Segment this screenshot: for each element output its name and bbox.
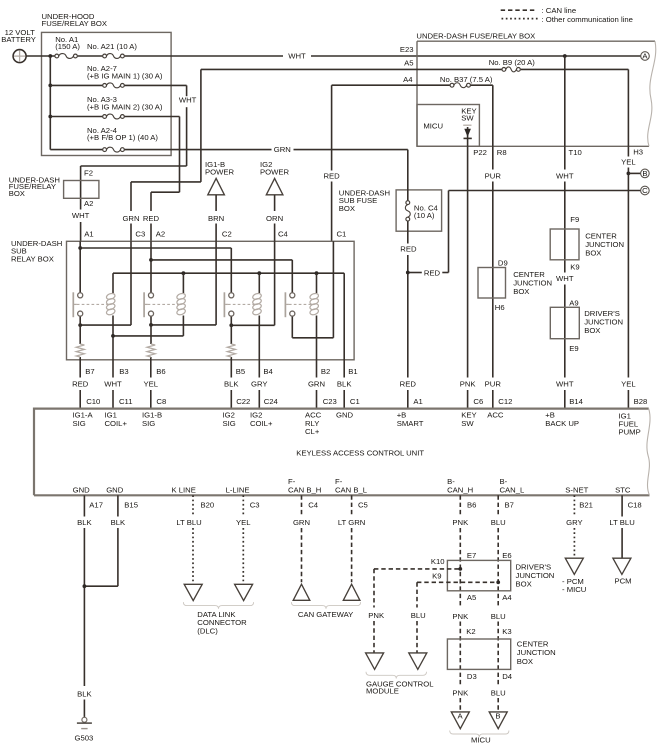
- svg-text:BRN: BRN: [208, 214, 224, 223]
- svg-text:RED: RED: [400, 245, 417, 254]
- svg-text:RELAY BOX: RELAY BOX: [11, 254, 54, 263]
- svg-text:D4: D4: [502, 672, 513, 681]
- svg-text:GRN: GRN: [274, 145, 291, 154]
- svg-text:WHT: WHT: [288, 51, 306, 60]
- svg-text:RED: RED: [400, 380, 417, 389]
- IG1-B POWER feed triangle: [205, 160, 234, 195]
- wire: C5 F-CAN B_L (dashed LT GRN): [351, 495, 353, 582]
- svg-text:K2: K2: [466, 627, 475, 636]
- junction: YEL to connector B: [627, 172, 631, 176]
- svg-text:B5: B5: [236, 367, 245, 376]
- svg-text:PUR: PUR: [485, 171, 502, 180]
- svg-text:(150 A): (150 A): [55, 42, 80, 51]
- wire: A2-7 output down-left to F2 (WHT): [81, 85, 187, 209]
- label - PCM - MICU: [562, 577, 586, 594]
- svg-text:COIL+: COIL+: [250, 419, 273, 428]
- svg-text:BLU: BLU: [491, 688, 506, 697]
- svg-text:C3: C3: [135, 230, 145, 239]
- svg-text:RED: RED: [323, 171, 340, 180]
- wire: pin A2 into relay 2 switch: [150, 241, 152, 292]
- junction: T10 tap on E23 row: [563, 54, 567, 58]
- connector circle B: [641, 169, 650, 178]
- wire: pin C2 to relay 2 switch output: [151, 241, 216, 325]
- svg-text:UNDER-DASH FUSE/RELAY BOX: UNDER-DASH FUSE/RELAY BOX: [416, 32, 535, 41]
- svg-text:C4: C4: [308, 500, 319, 509]
- svg-text:F2: F2: [84, 168, 93, 177]
- wire: B15 ground wire (BLK): [84, 495, 118, 586]
- relay R2 coil: [176, 292, 186, 315]
- svg-text:RED: RED: [72, 380, 89, 389]
- wire: coil 4 top drop: [316, 273, 318, 293]
- svg-text:C11: C11: [119, 397, 133, 406]
- svg-text:PNK: PNK: [452, 688, 469, 697]
- svg-text:C8: C8: [156, 397, 166, 406]
- svg-text:PUR: PUR: [485, 380, 502, 389]
- wire: IG2 power to pin C4 (ORN): [274, 195, 276, 242]
- junction: RED branch: [406, 271, 410, 275]
- junction: battery bus tap: [48, 54, 52, 58]
- wire: pin C3 to relay 1 switch output: [80, 241, 131, 325]
- connector circle A: [641, 52, 650, 61]
- svg-text:BLK: BLK: [224, 380, 239, 389]
- legend: other communication line sample (dotted): [502, 15, 633, 24]
- wire stubs into keyless unit top edge: [80, 390, 344, 409]
- svg-text:G503: G503: [75, 734, 94, 743]
- wire color labels relay box to keyless unit: [72, 380, 352, 389]
- relay R4 coil: [309, 292, 319, 315]
- under-dash sub fuse box outline: [339, 189, 442, 232]
- svg-text:CAN B_H: CAN B_H: [288, 486, 321, 495]
- wire: coil 3 bottom to B4: [258, 316, 260, 378]
- svg-text:GND: GND: [336, 410, 354, 419]
- svg-text:E23: E23: [400, 45, 414, 54]
- svg-text:SW: SW: [461, 419, 474, 428]
- svg-text:A: A: [642, 52, 648, 61]
- IG2 POWER feed triangle: [260, 160, 289, 195]
- svg-text:C24: C24: [264, 397, 279, 406]
- svg-text:SW: SW: [461, 114, 474, 123]
- svg-text:B4: B4: [263, 367, 273, 376]
- keyless bottom signal names: [73, 477, 631, 495]
- relay R4 switch contacts: [290, 293, 295, 316]
- svg-text:E9: E9: [569, 344, 578, 353]
- wire: C18 STC (LT BLU): [621, 495, 623, 558]
- driver's junction box A9/E9 on WHT wire: [550, 299, 623, 354]
- relay R2 switch contacts: [148, 293, 153, 316]
- svg-text:JUNCTION: JUNCTION: [517, 648, 556, 657]
- svg-text:K9: K9: [432, 572, 441, 581]
- STC triangle to PCM: [613, 558, 631, 574]
- svg-text:No. B37 (7.5 A): No. B37 (7.5 A): [440, 75, 493, 84]
- svg-text:A1: A1: [413, 397, 422, 406]
- junction: ground wires join: [83, 584, 87, 588]
- MICU triangle A: [451, 712, 469, 729]
- label fuse A2-4: [87, 126, 158, 142]
- wire: coil 2 top drop: [182, 273, 184, 293]
- svg-text:BLK: BLK: [111, 518, 126, 527]
- wire: pin C1 to relay 4 switch output: [292, 241, 333, 337]
- svg-text:S-NET: S-NET: [565, 486, 588, 495]
- wire: pin C4 to relay 3 switch output: [231, 241, 274, 325]
- svg-text:H3: H3: [633, 148, 643, 157]
- svg-text:E7: E7: [467, 551, 476, 560]
- CAN gateway bracket: [291, 602, 360, 609]
- MICU bracket: [450, 731, 509, 738]
- svg-text:MODULE: MODULE: [366, 687, 399, 696]
- svg-text:C6: C6: [473, 397, 483, 406]
- relay R2 mechanical link (dashed): [148, 303, 179, 305]
- gauge control module triangle 1: [366, 653, 384, 670]
- svg-text:K3: K3: [502, 627, 511, 636]
- svg-text:GRN: GRN: [308, 380, 325, 389]
- svg-text:BLU: BLU: [411, 611, 426, 620]
- svg-text:C23: C23: [323, 397, 337, 406]
- svg-text:PNK: PNK: [460, 380, 477, 389]
- center junction box K2/K3 D3/D4: [447, 627, 555, 681]
- svg-text:RED: RED: [424, 268, 441, 277]
- wire: A3-3 output to relay pin A2 (RED): [151, 117, 180, 242]
- relay R1 switch contacts: [78, 293, 83, 316]
- svg-text:GND: GND: [106, 486, 124, 495]
- svg-text:LT GRN: LT GRN: [338, 518, 365, 527]
- relay R2 armature: [144, 292, 148, 317]
- svg-text:CL+: CL+: [305, 427, 320, 436]
- svg-text:LT BLU: LT BLU: [176, 518, 201, 527]
- wire: R8 to C12 (PUR): [492, 146, 494, 408]
- relay R1 mechanical link (dashed): [77, 303, 108, 305]
- svg-text:BLU: BLU: [491, 518, 506, 527]
- wire: F2 box to relay pin A1 (WHT): [80, 222, 82, 241]
- svg-text:A1: A1: [84, 230, 93, 239]
- svg-text:C10: C10: [86, 397, 100, 406]
- svg-text:(DLC): (DLC): [197, 627, 218, 636]
- junction relay 2 output: [149, 323, 153, 327]
- svg-text:F9: F9: [570, 215, 579, 224]
- fuse No. A2-7 (+B IG MAIN 1) (30 A) row: [50, 83, 186, 88]
- svg-text:BOX: BOX: [517, 657, 533, 666]
- svg-text:PNK: PNK: [452, 612, 469, 621]
- relay R4 armature: [285, 292, 289, 317]
- driver's junction box E7/E6 A5/A4: [447, 551, 554, 602]
- svg-text:COIL+: COIL+: [105, 419, 128, 428]
- relay R3 switch contacts: [229, 293, 234, 316]
- gauge control module bracket: [366, 672, 427, 679]
- svg-text:POWER: POWER: [205, 168, 234, 177]
- svg-text:BLK: BLK: [77, 690, 92, 699]
- wire: P22 to C6 (PNK): [467, 146, 469, 408]
- svg-text:YEL: YEL: [621, 158, 636, 167]
- wire: A17 ground wire (BLK): [83, 495, 85, 717]
- svg-text:STC: STC: [615, 486, 631, 495]
- fuse No. A1 (150 A): [55, 54, 77, 59]
- wire: pin A1 into relay 1 switch: [79, 241, 81, 292]
- svg-text:PNK: PNK: [452, 518, 469, 527]
- under-dash fuse/relay box (F2/A2 segment): [9, 175, 99, 198]
- wire: C4 F-CAN B_H (dashed GRN): [301, 495, 303, 582]
- svg-text:KEYLESS ACCESS CONTROL UNIT: KEYLESS ACCESS CONTROL UNIT: [296, 449, 424, 458]
- svg-text:L-LINE: L-LINE: [226, 486, 250, 495]
- svg-text:SIG: SIG: [223, 419, 236, 428]
- wire: C3 L-LINE (dotted YEL): [242, 495, 244, 584]
- junction dots on battery bus: [48, 84, 52, 119]
- ground G503 symbol: [75, 717, 94, 742]
- junction K10 on B-CAN_H: [458, 567, 462, 571]
- svg-text:D3: D3: [467, 672, 477, 681]
- junction coil1 bottom: [111, 334, 115, 338]
- fuse No. C4 (10 A): [405, 201, 410, 221]
- svg-text:BOX: BOX: [9, 189, 25, 198]
- svg-text:B6: B6: [467, 500, 476, 509]
- wire: coil 3 top drop: [258, 273, 260, 293]
- svg-text:B3: B3: [119, 367, 128, 376]
- resistor under relay 1: [76, 344, 84, 357]
- under-dash sub relay box outline: [11, 239, 354, 360]
- relay R1 armature: [73, 292, 77, 317]
- wire: relay 1 switch lower contact: [79, 316, 81, 344]
- label fuse A1: [55, 35, 80, 51]
- wire: E23 tap down to T10 (WHT backup feed): [564, 56, 566, 146]
- fuse No. A2-4 (+B F/B OP 1) (40 A) row: [50, 147, 408, 152]
- wire: T10 to B14 (WHT): [564, 146, 566, 408]
- svg-text:B6: B6: [156, 367, 165, 376]
- svg-text:RED: RED: [143, 214, 160, 223]
- svg-text:POWER: POWER: [260, 168, 289, 177]
- svg-text:CAN GATEWAY: CAN GATEWAY: [298, 610, 353, 619]
- svg-text:SMART: SMART: [397, 419, 424, 428]
- svg-text:C12: C12: [498, 397, 512, 406]
- svg-text:A4: A4: [403, 75, 413, 84]
- svg-text:H6: H6: [495, 303, 505, 312]
- wire: resistor outputs to pins B7/B6/B5: [80, 357, 231, 378]
- svg-text:A17: A17: [89, 500, 103, 509]
- svg-text:D9: D9: [498, 258, 508, 267]
- svg-text:WHT: WHT: [556, 380, 574, 389]
- svg-text:C1: C1: [350, 397, 360, 406]
- relay pin labels top edge: [84, 230, 346, 239]
- svg-text:BACK UP: BACK UP: [545, 419, 579, 428]
- svg-text:E6: E6: [502, 551, 511, 560]
- svg-text:K LINE: K LINE: [172, 486, 196, 495]
- svg-text:YEL: YEL: [621, 380, 636, 389]
- svg-text:CENTER: CENTER: [517, 640, 549, 649]
- svg-text:MICU: MICU: [471, 736, 491, 745]
- svg-text:BATTERY: BATTERY: [1, 35, 36, 44]
- keyless bottom pin number labels: [89, 500, 641, 509]
- svg-text:PCM: PCM: [615, 576, 632, 585]
- svg-text:B21: B21: [579, 500, 593, 509]
- wire: A4 left branch down to relay pin C1 (RED): [331, 85, 333, 241]
- wire: fuse C4 to keyless A1 (RED): [407, 221, 409, 408]
- svg-text:A5: A5: [404, 59, 413, 68]
- svg-text:SIG: SIG: [142, 419, 155, 428]
- svg-text:(+B IG MAIN 2) (30 A): (+B IG MAIN 2) (30 A): [87, 102, 163, 111]
- S-NET triangle to PCM/MICU: [565, 558, 583, 574]
- svg-text:K9: K9: [570, 262, 579, 271]
- junction relay 1 output: [78, 323, 82, 327]
- resistor under relay 3: [227, 344, 235, 357]
- label fuse A3-3: [87, 95, 163, 111]
- wire: +B bus to relay 3 switch: [80, 248, 231, 293]
- DLC bracket: [183, 602, 253, 609]
- svg-text:ACC: ACC: [487, 410, 504, 419]
- center junction box F9/K9 on WHT wire: [550, 215, 624, 271]
- resistor under relay 2: [147, 344, 155, 357]
- wire: battery vertical bus in under-hood box: [49, 56, 51, 150]
- relay pin labels bottom edge: [85, 367, 357, 376]
- DLC triangle 2: [235, 584, 253, 600]
- svg-text:B: B: [642, 169, 647, 178]
- svg-text:C1: C1: [337, 230, 347, 239]
- svg-text:- MICU: - MICU: [562, 585, 586, 594]
- svg-text:PUMP: PUMP: [619, 428, 641, 437]
- svg-text:GND: GND: [73, 486, 91, 495]
- label DATA LINK CONNECTOR (DLC): [197, 610, 247, 636]
- svg-text:No. B9 (20 A): No. B9 (20 A): [489, 58, 536, 67]
- wire: B21 S-NET (dotted GRY): [573, 495, 575, 558]
- svg-text:K10: K10: [431, 557, 445, 566]
- CAN gateway triangle 1: [293, 584, 310, 600]
- svg-text:C5: C5: [358, 500, 368, 509]
- svg-text:BLK: BLK: [77, 518, 92, 527]
- wire: A4 row with fuse No. B37 (7.5 A) to R8: [332, 83, 493, 147]
- svg-text:A4: A4: [502, 593, 512, 602]
- wire: IG1-B power to pin C2 (BRN): [215, 195, 217, 242]
- wire: A5 left branch down to relay pin C3 (GRN): [131, 69, 201, 241]
- wire to connector B: [628, 172, 640, 174]
- svg-text:B20: B20: [201, 500, 215, 509]
- svg-text:FUSE/RELAY BOX: FUSE/RELAY BOX: [42, 19, 108, 28]
- center junction box D9/H6 on PUR wire: [478, 258, 552, 312]
- svg-text:GRN: GRN: [293, 518, 310, 527]
- wire: RED branch line to connector C: [408, 191, 641, 273]
- connector circle C: [641, 186, 650, 195]
- svg-text:C18: C18: [628, 500, 642, 509]
- junction K9 on B-CAN_L: [496, 580, 500, 584]
- wire: B20 K LINE (dotted LT BLU): [192, 495, 194, 584]
- svg-text:GRY: GRY: [251, 380, 268, 389]
- svg-text:C: C: [642, 186, 648, 195]
- label fuse C4: [414, 203, 439, 220]
- svg-text:YEL: YEL: [144, 380, 159, 389]
- svg-text:SIG: SIG: [73, 419, 86, 428]
- svg-text:(10 A): (10 A): [414, 211, 435, 220]
- svg-text:BLK: BLK: [337, 380, 352, 389]
- DLC triangle 1: [184, 584, 202, 600]
- svg-text:PNK: PNK: [368, 611, 385, 620]
- svg-text:WHT: WHT: [179, 96, 197, 105]
- svg-text:B7: B7: [505, 500, 514, 509]
- svg-text:C3: C3: [250, 500, 260, 509]
- svg-text:MICU: MICU: [423, 121, 443, 130]
- svg-text:C2: C2: [222, 230, 232, 239]
- svg-text:CAN_H: CAN_H: [447, 486, 473, 495]
- keyless top pin number labels: [86, 397, 647, 406]
- svg-text:No. A21 (10 A): No. A21 (10 A): [87, 42, 137, 51]
- svg-text:WHT: WHT: [104, 380, 122, 389]
- wire: B6 B-CAN_H (dashed PNK): [459, 495, 461, 712]
- svg-text:CAN_L: CAN_L: [500, 486, 526, 495]
- svg-text:C22: C22: [236, 397, 250, 406]
- label GAUGE CONTROL MODULE: [366, 679, 434, 695]
- under-dash fuse/relay box outline with continuation squiggle: [416, 32, 655, 147]
- wire: K9 branch (dashed) to gauge control module: [417, 582, 498, 653]
- legend: CAN line sample (dashed): [501, 6, 576, 15]
- svg-text:WHT: WHT: [72, 211, 90, 220]
- wire: K10 branch (dashed) to gauge control module: [374, 569, 460, 653]
- relay R3 coil: [252, 292, 262, 315]
- wire: H3 to B28 (YEL fuel pump feed): [627, 146, 629, 408]
- svg-text:B2: B2: [321, 367, 330, 376]
- gauge control module triangle 2: [409, 653, 427, 670]
- under-hood fuse/relay box outline: [42, 12, 172, 156]
- svg-text:LT BLU: LT BLU: [609, 518, 634, 527]
- svg-text:B28: B28: [634, 397, 648, 406]
- svg-text:B7: B7: [85, 367, 94, 376]
- MICU box inside under-dash box: [417, 105, 479, 147]
- svg-text:BLU: BLU: [491, 612, 506, 621]
- KEY SW switch symbol inside MICU: [461, 107, 476, 147]
- svg-text:BOX: BOX: [339, 204, 355, 213]
- wire: relay 3 switch lower contact: [230, 316, 232, 344]
- wire: GRN feed into fuse C4: [407, 150, 409, 201]
- wire: A5 row with fuse No. B9 (20 A) to H3 (YEL): [201, 67, 629, 146]
- fuse No. A21 (10 A): [103, 54, 125, 59]
- CAN gateway triangle 2: [343, 584, 360, 600]
- svg-text:BOX: BOX: [584, 326, 600, 335]
- label fuse A2-7: [87, 64, 163, 80]
- junction dots coil bus: [182, 271, 319, 275]
- svg-text:A2: A2: [156, 230, 165, 239]
- battery B1 12 VOLT BATTERY: [1, 28, 36, 63]
- fuse No. A3-3 (+B IG MAIN 2) (30 A) row: [50, 114, 179, 119]
- MICU triangle B: [489, 712, 507, 729]
- svg-text:(+B F/B OP 1) (40 A): (+B F/B OP 1) (40 A): [87, 133, 158, 142]
- relay R4 mechanical link (dashed): [289, 303, 311, 305]
- svg-text:YEL: YEL: [236, 518, 251, 527]
- svg-text:A5: A5: [467, 593, 476, 602]
- junction on A2 wire (bus to relay 4): [149, 258, 153, 262]
- relay R1 coil: [106, 292, 116, 315]
- svg-text:A: A: [458, 712, 464, 721]
- svg-text:B15: B15: [124, 500, 138, 509]
- wire: IG bus to relay 4 switch: [151, 260, 292, 293]
- svg-text:WHT: WHT: [556, 274, 574, 283]
- svg-text:ORN: ORN: [266, 214, 283, 223]
- svg-text:(+B IG MAIN 1) (30 A): (+B IG MAIN 1) (30 A): [87, 71, 163, 80]
- wire: relay 2 switch lower contact: [150, 316, 152, 344]
- wire: coil1+coil2 bottoms to B3: [113, 316, 183, 378]
- junction on A1 wire (bus to relay 3): [78, 246, 82, 250]
- svg-text:B1: B1: [348, 367, 357, 376]
- svg-text:A9: A9: [569, 299, 578, 308]
- wire: coil 4 bottom to B2: [316, 316, 318, 378]
- svg-text:B14: B14: [569, 397, 583, 406]
- svg-text:BOX: BOX: [585, 249, 601, 258]
- keyless access control unit outline: [34, 408, 650, 496]
- svg-text:T10: T10: [569, 148, 582, 157]
- svg-text:: Other communication line: : Other communication line: [542, 15, 633, 24]
- svg-text:A2: A2: [84, 199, 93, 208]
- junction relay 3 output: [229, 323, 233, 327]
- svg-text:BOX: BOX: [516, 580, 532, 589]
- svg-text:C4: C4: [278, 230, 289, 239]
- svg-text:GRN: GRN: [122, 214, 139, 223]
- svg-text:R8: R8: [497, 148, 507, 157]
- svg-text:CAN B_L: CAN B_L: [335, 486, 368, 495]
- wire: coil common bus to B1: [113, 273, 344, 377]
- wire: B7 B-CAN_L (dashed BLU): [497, 495, 499, 712]
- wire color labels below keyless unit: [77, 518, 635, 527]
